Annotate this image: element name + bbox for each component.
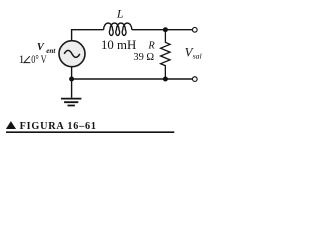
resistor R: leads and zigzag bbox=[161, 30, 170, 79]
svg-text:L: L bbox=[116, 7, 124, 21]
wire: source top to inductor bbox=[72, 30, 104, 41]
svg-text:sal: sal bbox=[193, 51, 202, 60]
svg-text:0° V: 0° V bbox=[31, 54, 47, 66]
terminal: bottom output (open) bbox=[192, 77, 197, 82]
svg-text:FIGURA 16–61: FIGURA 16–61 bbox=[20, 121, 96, 132]
wire: source bottom to ground bbox=[71, 67, 73, 98]
svg-text:R: R bbox=[147, 41, 155, 52]
ground symbol bbox=[61, 99, 81, 106]
node: bottom-left junction bbox=[69, 77, 74, 82]
caption rule bbox=[6, 131, 174, 133]
svg-text:ent: ent bbox=[46, 47, 56, 55]
voltage source Vent circle bbox=[59, 41, 85, 67]
terminal: top output (open) bbox=[192, 27, 197, 32]
node: top junction bbox=[163, 27, 168, 32]
svg-text:10 mH: 10 mH bbox=[101, 38, 136, 52]
svg-text:39 Ω: 39 Ω bbox=[133, 52, 154, 63]
wire: bottom rail bbox=[72, 78, 193, 80]
caption triangle marker bbox=[6, 121, 16, 129]
inductor L coil bbox=[104, 23, 132, 35]
svg-text:V: V bbox=[37, 42, 45, 53]
sine wave bbox=[64, 50, 80, 57]
wire: inductor to top terminal bbox=[132, 29, 192, 31]
svg-text:1: 1 bbox=[19, 54, 25, 66]
node: bottom-right junction bbox=[163, 77, 168, 82]
